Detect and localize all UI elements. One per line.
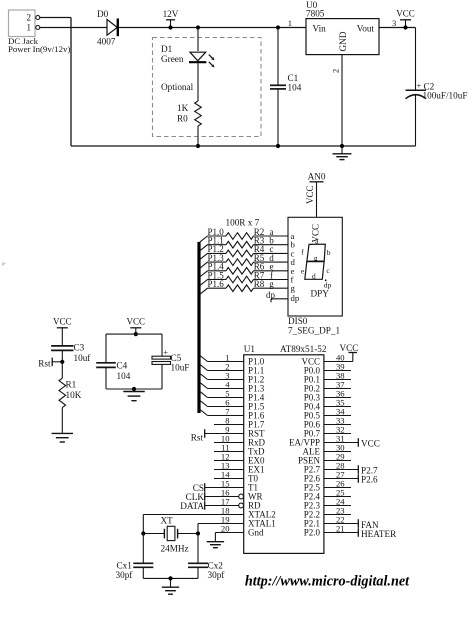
- resistor R5 row (P1.3 to segment d): [200, 253, 288, 268]
- svg-text:U1: U1: [244, 344, 256, 354]
- resistor R8 row (P1.6 to segment g): [200, 279, 288, 294]
- svg-text:R8: R8: [254, 279, 265, 289]
- svg-text:Rst: Rst: [38, 359, 51, 369]
- junction 12V: [168, 25, 172, 29]
- wire crystal caps bottom rail: [143, 577, 198, 579]
- wire C5 to bottom rail: [161, 364, 163, 389]
- resistor R7 row (P1.5 to segment f): [200, 270, 288, 285]
- ground rail (top section): [71, 145, 416, 147]
- wire U1 pin 11 stub: [214, 451, 244, 453]
- wire dp stub: [266, 290, 288, 303]
- svg-text:Green: Green: [161, 54, 184, 64]
- wire U1 pin 23 stub: [324, 514, 351, 516]
- svg-text:DIS0: DIS0: [288, 316, 308, 326]
- wire U1 pin 14 stub: [214, 478, 244, 480]
- junction crystal left: [141, 531, 145, 535]
- wire U1 pin 19 XTAL1 to crystal: [198, 524, 244, 534]
- connector DC Jack: [8, 10, 70, 54]
- micro U1 AT89x51-52: [244, 344, 327, 553]
- svg-text:P2.0: P2.0: [304, 528, 321, 538]
- svg-text:Cx2: Cx2: [208, 561, 224, 571]
- svg-text:http://www.micro-digital.net: http://www.micro-digital.net: [245, 574, 410, 590]
- junction C1 bottom: [276, 144, 280, 148]
- wire U1 pin 20 Gnd: [215, 533, 243, 542]
- ground symbol (reset branch): [52, 432, 74, 434]
- svg-text:104: 104: [117, 371, 131, 381]
- svg-text:VCC: VCC: [53, 317, 72, 327]
- svg-text:7_SEG_DP_1: 7_SEG_DP_1: [288, 326, 340, 336]
- wire C4 to bottom rail: [105, 367, 107, 389]
- svg-text:b: b: [327, 248, 331, 257]
- wire right leg to C5: [161, 334, 163, 357]
- svg-text:7805: 7805: [306, 9, 325, 19]
- regulator U0 7805: [288, 0, 397, 73]
- capacitor C4 104: [96, 361, 130, 382]
- svg-text:Power In(9v/12v): Power In(9v/12v): [8, 44, 70, 54]
- svg-text:VCC: VCC: [396, 9, 415, 19]
- net label FAN at U1 pin 22: [324, 519, 379, 530]
- wire U1 pin 6 to bus: [200, 400, 244, 406]
- wire U1 pin 38 stub: [324, 379, 351, 381]
- net bus P1.0-P1.6 (thick): [197, 242, 200, 413]
- svg-text:R1: R1: [66, 380, 77, 390]
- svg-text:AT89x51-52: AT89x51-52: [280, 344, 327, 354]
- svg-text:DATA: DATA: [180, 501, 204, 511]
- wire U1 pin 34 stub: [324, 415, 351, 417]
- net label VCC at U1 pin 31 EA/VPP: [324, 438, 380, 448]
- svg-text:g: g: [314, 254, 318, 263]
- svg-text:P1.6: P1.6: [208, 279, 225, 289]
- svg-text:XT: XT: [161, 516, 174, 526]
- net label HEATER at U1 pin 21: [324, 528, 397, 539]
- U1 left pin name labels: [248, 357, 276, 538]
- wire U1 pin 4 to bus: [200, 382, 244, 388]
- resistor R1 10K: [59, 378, 82, 407]
- net label Rst at U1 pin 9: [191, 429, 244, 442]
- svg-text:2: 2: [27, 13, 32, 23]
- net label AN0 terminal: [305, 172, 326, 218]
- junction crystal right: [196, 531, 200, 535]
- capacitor C2 100uF/10uF: [406, 81, 468, 101]
- svg-text:Optional: Optional: [161, 82, 194, 92]
- U1 left pin number labels 1-20: [221, 352, 230, 533]
- svg-text:21: 21: [336, 523, 345, 533]
- svg-text:R0: R0: [177, 114, 188, 124]
- junction Rst: [60, 360, 64, 364]
- svg-text:DPY: DPY: [311, 289, 330, 299]
- svg-text:C4: C4: [117, 361, 128, 371]
- svg-text:dp: dp: [324, 280, 332, 289]
- wire LED cathode to R0: [197, 63, 199, 101]
- wire R1 to ground: [61, 408, 63, 434]
- wire left leg to C4: [105, 334, 107, 363]
- wire U1 pin 26 stub: [324, 487, 351, 489]
- net label P2.7 at U1 pin 28: [324, 465, 378, 475]
- ground symbol (crystal): [162, 578, 179, 594]
- junction decoupling top: [134, 332, 138, 336]
- svg-text:C1: C1: [288, 73, 299, 83]
- ground symbol (decoupling): [123, 389, 145, 401]
- wire jack pin2 to ground rail: [40, 18, 71, 147]
- wire U1 pin 18 XTAL2 to crystal: [143, 515, 243, 534]
- junction U0 gnd: [340, 144, 344, 148]
- wire decoupling loop bottom rail: [106, 388, 162, 390]
- svg-text:d: d: [312, 271, 316, 280]
- svg-text:1K: 1K: [177, 103, 189, 113]
- wire U1 pin 25 stub: [324, 496, 351, 498]
- wire U1 pin 2 to bus: [200, 364, 244, 370]
- wire C3 to R1: [61, 350, 63, 378]
- net label 12V terminal: [163, 9, 179, 28]
- wire C2 to rail: [415, 96, 417, 147]
- resistor R3 row (P1.1 to segment b): [200, 236, 288, 251]
- wire U1 pin 12 stub: [214, 460, 244, 462]
- svg-text:30pf: 30pf: [116, 570, 134, 580]
- svg-text:2: 2: [331, 69, 341, 73]
- svg-text:VCC: VCC: [127, 317, 146, 327]
- svg-text:g: g: [291, 283, 296, 293]
- svg-text:100uF/10uF: 100uF/10uF: [423, 91, 468, 101]
- U1 right pin number labels 40-21: [336, 352, 345, 533]
- svg-text:HEATER: HEATER: [361, 529, 397, 539]
- svg-text:24MHz: 24MHz: [161, 544, 189, 554]
- wire U1 pin 29 stub: [324, 460, 351, 462]
- crystal XT 24MHz: [143, 516, 198, 554]
- junction R0/rail: [196, 144, 200, 148]
- svg-text:P2.6: P2.6: [361, 475, 378, 485]
- wire U1 pin 35 stub: [324, 406, 351, 408]
- svg-text:3: 3: [392, 18, 396, 28]
- wire U1 pin 30 stub: [324, 451, 351, 453]
- svg-text:D1: D1: [161, 44, 173, 54]
- wire U1 pin 36 stub: [324, 397, 351, 399]
- U1 right pin name labels: [289, 357, 321, 538]
- ground symbol (U1 Gnd): [207, 541, 224, 543]
- capacitor C5 10uF (polarized): [152, 347, 189, 372]
- svg-text:AN0: AN0: [308, 172, 326, 182]
- net label DATA at U1 pin 17 (RD, inverted): [180, 501, 243, 511]
- svg-text:Vin: Vin: [313, 24, 327, 34]
- wire U1 pin 39 stub: [324, 370, 351, 372]
- svg-text:10K: 10K: [66, 390, 82, 400]
- svg-text:g: g: [269, 279, 274, 289]
- net label Rst (left): [38, 358, 62, 369]
- capacitor Cx2 30pf: [188, 534, 225, 581]
- svg-text:1: 1: [27, 23, 32, 33]
- resistor R6 row (P1.4 to segment e): [200, 262, 288, 277]
- wire U1 pin 7 to bus: [200, 409, 244, 415]
- 7-seg digit graphic: [301, 237, 332, 290]
- wire U1 pin 3 to bus: [200, 373, 244, 379]
- wire U1 pin 1 to bus: [200, 355, 244, 361]
- wire U1 pin 24 stub: [324, 505, 351, 507]
- power VCC terminal (U1 pin 40): [340, 343, 359, 353]
- resistor R4 row (P1.2 to segment c): [200, 244, 288, 259]
- diode D0 4007: [97, 9, 118, 47]
- svg-text:VCC: VCC: [305, 185, 315, 204]
- svg-text:dp: dp: [291, 293, 300, 303]
- svg-text:D0: D0: [97, 9, 109, 19]
- junction crystal gnd: [168, 576, 172, 580]
- svg-text:+: +: [163, 347, 168, 357]
- scan artifact mark: [2, 263, 6, 267]
- svg-text:GND: GND: [338, 31, 348, 51]
- wire U1 pin 5 to bus: [200, 391, 244, 397]
- junction decoupling gnd: [132, 387, 136, 391]
- resistor R2 row (P1.0 to segment a): [200, 227, 288, 242]
- wire diode to Vin (12V rail): [118, 27, 306, 29]
- svg-text:Cx1: Cx1: [117, 561, 133, 571]
- wire Vout to VCC/C2: [379, 27, 416, 29]
- svg-text:+: +: [417, 81, 422, 91]
- ground symbol (top section): [333, 146, 352, 160]
- svg-text:VCC: VCC: [361, 439, 380, 449]
- capacitor C3 10uf: [51, 343, 91, 364]
- display DIS0 7_SEG_DP_1 box: [288, 217, 342, 335]
- svg-text:VCC: VCC: [340, 343, 359, 353]
- wire U1 pin 8 stub: [214, 424, 244, 426]
- svg-text:C3: C3: [74, 343, 85, 353]
- resistor R0 1K: [177, 101, 201, 126]
- DIS0 pin name labels: [291, 231, 300, 303]
- LED D1 Green: [161, 44, 215, 68]
- wire 12V to LED D1 anode: [197, 28, 199, 52]
- junction C1 top: [276, 25, 280, 29]
- net label CLK at U1 pin 16 (WR, inverted): [186, 492, 244, 502]
- svg-text:10uf: 10uf: [74, 353, 92, 363]
- capacitor Cx1 30pf: [116, 534, 154, 581]
- wire U1 pin 33 stub: [324, 424, 351, 426]
- svg-text:4007: 4007: [97, 37, 116, 47]
- optional dashed enclosure: [153, 38, 262, 137]
- wire U1 pin 37 stub: [324, 388, 351, 390]
- capacitor C1 104: [270, 25, 302, 148]
- svg-text:Rst: Rst: [191, 433, 204, 443]
- wire R0 to ground rail: [197, 126, 199, 146]
- svg-text:Gnd: Gnd: [248, 528, 264, 538]
- svg-text:1: 1: [288, 18, 292, 28]
- wire U1 pin 40 to VCC: [324, 353, 353, 362]
- svg-text:30pf: 30pf: [208, 570, 226, 580]
- net label P2.6 at U1 pin 27: [324, 474, 378, 484]
- junction Vout/VCC: [403, 25, 407, 29]
- svg-text:12V: 12V: [163, 9, 179, 19]
- wire U1 pin 32 stub: [324, 433, 351, 435]
- svg-text:20: 20: [221, 523, 230, 533]
- wire U0 GND pin to rail: [341, 55, 343, 146]
- wire decoupling loop top rail: [106, 333, 162, 335]
- svg-text:C5: C5: [171, 353, 182, 363]
- net label CS at U1 pin 15: [193, 483, 244, 493]
- svg-text:Vout: Vout: [357, 24, 375, 34]
- wire U1 pin 10 stub: [214, 442, 244, 444]
- wire jack pin1 to diode D0: [40, 27, 107, 29]
- junction LED branch: [196, 25, 200, 29]
- svg-text:104: 104: [288, 83, 302, 93]
- wire down to C2: [415, 28, 417, 91]
- svg-text:10uF: 10uF: [171, 363, 190, 373]
- wire U1 pin 13 stub: [214, 469, 244, 471]
